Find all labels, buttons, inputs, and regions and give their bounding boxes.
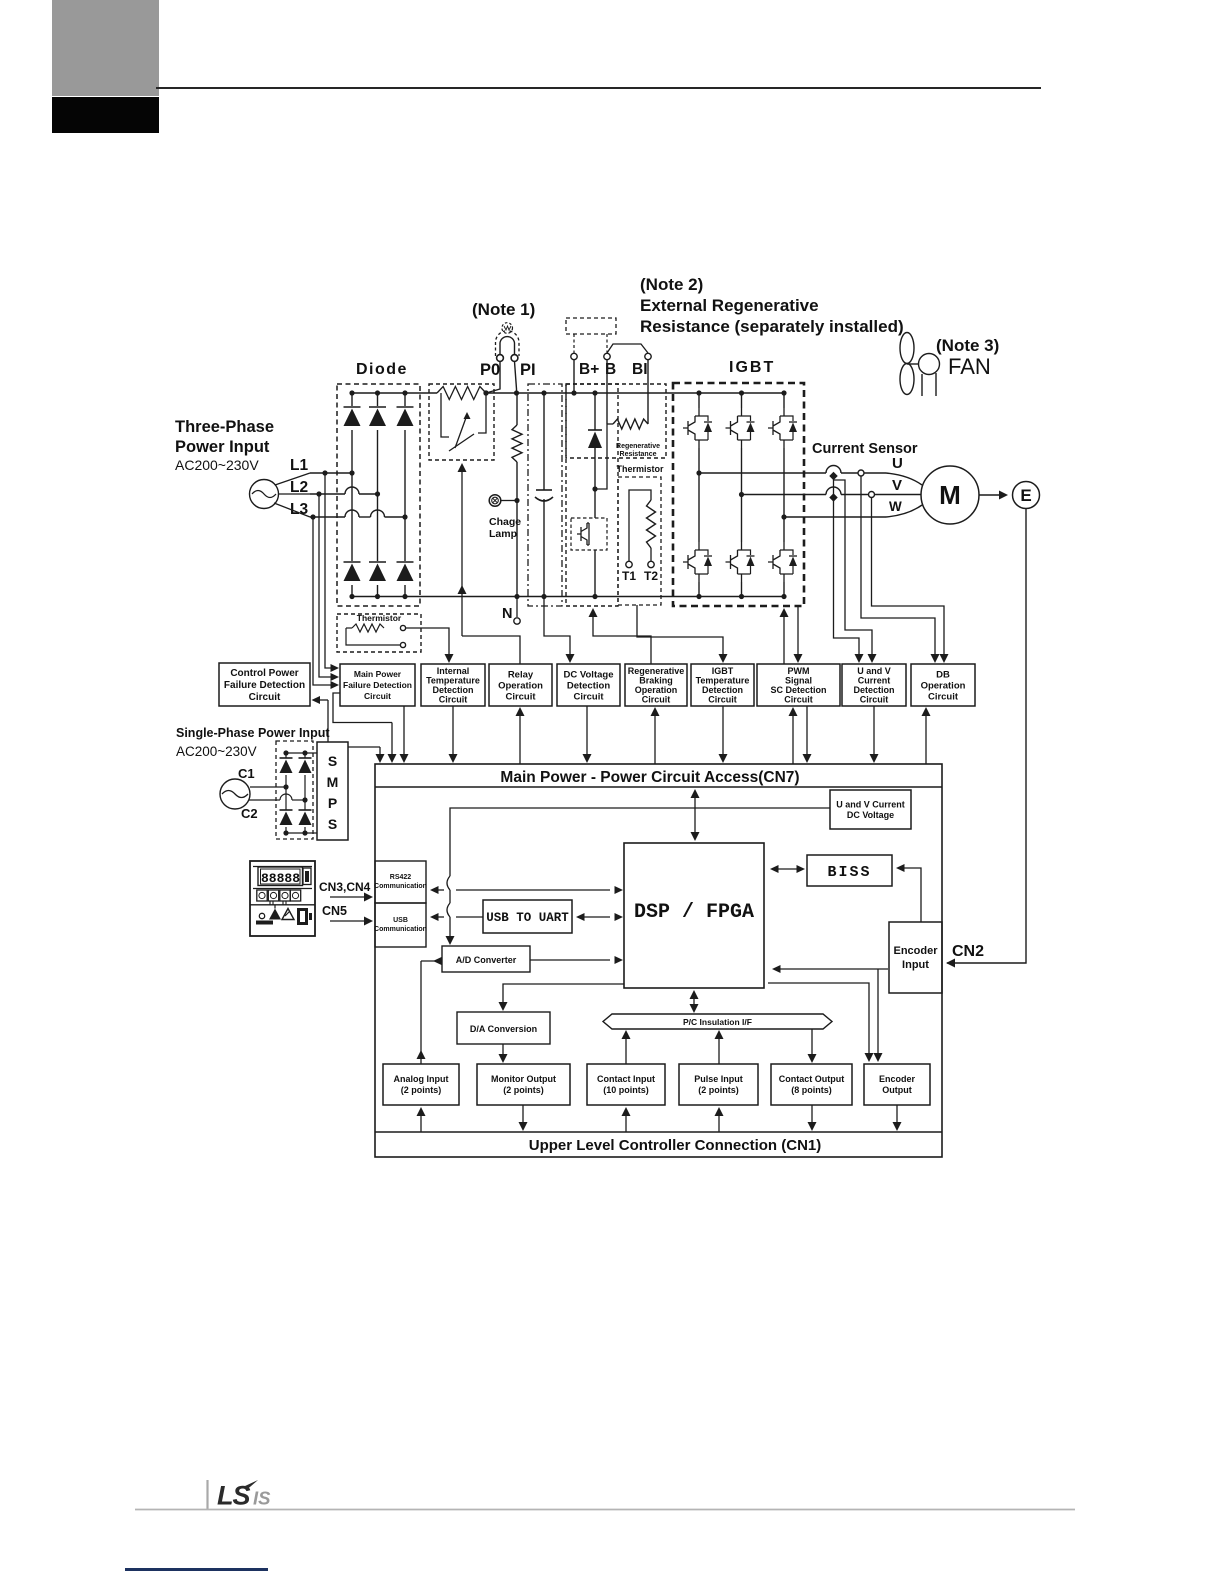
svg-text:Circuit: Circuit: [784, 695, 813, 705]
svg-text:DB: DB: [936, 669, 950, 680]
svg-text:Output: Output: [882, 1085, 912, 1095]
svg-text:T2: T2: [644, 569, 658, 583]
svg-text:M: M: [327, 774, 339, 790]
svg-text:Resistance: Resistance: [620, 451, 657, 458]
svg-text:LS: LS: [217, 1481, 250, 1511]
svg-text:D/A Conversion: D/A Conversion: [470, 1024, 537, 1034]
svg-text:PWM: PWM: [788, 666, 810, 676]
svg-text:BI: BI: [632, 361, 648, 378]
svg-text:S: S: [328, 816, 337, 832]
svg-text:Contact Input: Contact Input: [597, 1074, 655, 1084]
svg-text:(8 points): (8 points): [791, 1085, 832, 1095]
svg-text:CN3,CN4: CN3,CN4: [319, 880, 371, 894]
svg-text:Diode: Diode: [356, 361, 408, 378]
svg-text:T1: T1: [622, 569, 636, 583]
svg-text:Thermistor: Thermistor: [357, 613, 402, 623]
svg-text:Circuit: Circuit: [439, 695, 468, 705]
svg-text:Chage: Chage: [489, 516, 521, 528]
svg-text:PI: PI: [520, 361, 536, 379]
svg-text:SC Detection: SC Detection: [770, 685, 826, 695]
svg-text:Temperature: Temperature: [426, 675, 480, 685]
svg-text:Resistance (separately install: Resistance (separately installed): [640, 317, 904, 336]
svg-text:Monitor Output: Monitor Output: [491, 1074, 556, 1084]
svg-text:USB TO UART: USB TO UART: [486, 911, 569, 925]
svg-text:Pulse Input: Pulse Input: [694, 1074, 743, 1084]
svg-text:Three-Phase: Three-Phase: [175, 418, 274, 436]
svg-text:Circuit: Circuit: [505, 691, 536, 702]
svg-text:U and V Current: U and V Current: [836, 799, 905, 809]
svg-text:M: M: [939, 480, 961, 510]
svg-text:IGBT: IGBT: [712, 666, 734, 676]
svg-text:(Note 3): (Note 3): [936, 336, 999, 355]
svg-text:S: S: [328, 753, 337, 769]
svg-text:Detection: Detection: [567, 680, 610, 691]
svg-text:C2: C2: [241, 806, 258, 821]
svg-text:(Note 2): (Note 2): [640, 275, 703, 294]
svg-text:CN5: CN5: [322, 904, 347, 918]
svg-text:E: E: [1020, 486, 1031, 505]
svg-text:Signal: Signal: [785, 675, 812, 685]
svg-text:Encoder: Encoder: [879, 1074, 916, 1084]
svg-text:Operation: Operation: [635, 685, 678, 695]
svg-text:Failure Detection: Failure Detection: [224, 680, 305, 691]
svg-text:AC200~230V: AC200~230V: [176, 744, 257, 759]
svg-text:Communication: Communication: [374, 926, 427, 933]
svg-text:Analog Input: Analog Input: [394, 1074, 449, 1084]
svg-text:Detection: Detection: [853, 685, 894, 695]
svg-text:(2 points): (2 points): [698, 1085, 739, 1095]
svg-text:A/D Converter: A/D Converter: [456, 955, 517, 965]
svg-text:(10 points): (10 points): [603, 1085, 649, 1095]
svg-text:L1: L1: [290, 457, 308, 474]
svg-text:DC Voltage: DC Voltage: [847, 810, 894, 820]
svg-text:BISS: BISS: [827, 864, 871, 881]
svg-text:Circuit: Circuit: [642, 695, 671, 705]
svg-text:CN2: CN2: [952, 943, 984, 960]
svg-text:P0: P0: [480, 361, 500, 379]
svg-text:RS422: RS422: [390, 874, 412, 881]
svg-text:V: V: [892, 477, 902, 494]
svg-text:W: W: [889, 499, 902, 514]
svg-text:Braking: Braking: [639, 675, 673, 685]
svg-text:Power Input: Power Input: [175, 438, 270, 456]
svg-text:Circuit: Circuit: [928, 691, 959, 702]
svg-text:Lamp: Lamp: [489, 528, 517, 540]
svg-text:Current: Current: [858, 675, 891, 685]
svg-text:C1: C1: [238, 766, 255, 781]
svg-text:Control Power: Control Power: [230, 668, 298, 679]
svg-text:Communication: Communication: [374, 883, 427, 890]
svg-text:(2 points): (2 points): [503, 1085, 544, 1095]
svg-text:USB: USB: [393, 917, 408, 924]
svg-text:Failure Detection: Failure Detection: [343, 680, 412, 690]
svg-text:Main Power: Main Power: [354, 669, 402, 679]
svg-text:Detection: Detection: [702, 685, 743, 695]
svg-text:U and V: U and V: [857, 666, 891, 676]
svg-text:P: P: [328, 795, 337, 811]
svg-text:Regenerative: Regenerative: [616, 443, 660, 450]
svg-text:Internal: Internal: [437, 666, 470, 676]
svg-text:88888: 88888: [261, 871, 300, 886]
svg-text:U: U: [892, 455, 903, 472]
svg-text:Detection: Detection: [432, 685, 473, 695]
svg-text:Regenerative: Regenerative: [628, 666, 685, 676]
svg-text:External Regenerative: External Regenerative: [640, 296, 819, 315]
svg-text:Contact Output: Contact Output: [779, 1074, 845, 1084]
svg-text:IGBT: IGBT: [729, 359, 775, 376]
svg-text:Thermistor: Thermistor: [616, 464, 664, 474]
svg-text:Circuit: Circuit: [364, 691, 391, 701]
svg-text:N: N: [502, 606, 512, 622]
svg-text:Relay: Relay: [508, 669, 534, 680]
svg-text:Operation: Operation: [498, 680, 543, 691]
svg-text:Input: Input: [902, 959, 929, 971]
svg-text:(Note 1): (Note 1): [472, 300, 535, 319]
svg-text:Single-Phase Power Input: Single-Phase Power Input: [176, 726, 330, 740]
svg-text:Operation: Operation: [921, 680, 966, 691]
svg-text:Main Power - Power Circuit Acc: Main Power - Power Circuit Access(CN7): [500, 769, 799, 786]
svg-text:AC200~230V: AC200~230V: [175, 457, 259, 473]
svg-text:Encoder: Encoder: [893, 945, 938, 957]
svg-text:Circuit: Circuit: [573, 691, 604, 702]
svg-text:DSP / FPGA: DSP / FPGA: [634, 901, 754, 924]
svg-text:(2 points): (2 points): [401, 1085, 442, 1095]
svg-text:Circuit: Circuit: [860, 695, 889, 705]
svg-text:B+: B+: [579, 361, 599, 378]
svg-text:Circuit: Circuit: [249, 692, 281, 703]
svg-text:DC Voltage: DC Voltage: [564, 669, 614, 680]
svg-text:Upper Level Controller Connect: Upper Level Controller Connection (CN1): [529, 1137, 822, 1154]
svg-text:Circuit: Circuit: [708, 695, 737, 705]
svg-text:IS: IS: [253, 1488, 271, 1509]
svg-text:FAN: FAN: [948, 354, 991, 379]
svg-text:P/C Insulation I/F: P/C Insulation I/F: [683, 1017, 752, 1027]
svg-text:Temperature: Temperature: [696, 675, 750, 685]
